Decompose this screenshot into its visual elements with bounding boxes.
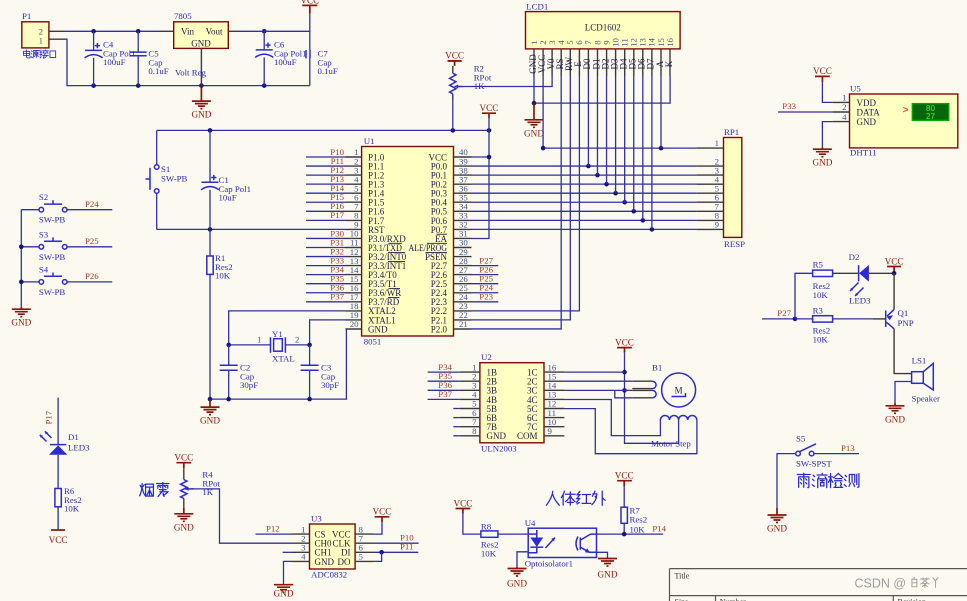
svg-text:U2: U2 <box>481 352 492 362</box>
wire Vout to VCC <box>228 30 239 32</box>
svg-text:U4: U4 <box>525 518 536 528</box>
svg-text:COM: COM <box>517 431 538 441</box>
wire VCC to R8 <box>463 514 481 535</box>
power VCC (U3) <box>375 517 390 522</box>
svg-text:1: 1 <box>257 334 261 344</box>
ground (keys) <box>11 307 31 328</box>
svg-text:Y1: Y1 <box>272 329 283 339</box>
LED D2 LED3 <box>849 252 871 306</box>
wire DO to DI <box>373 552 382 561</box>
driver U2 ULN2003 <box>460 352 565 453</box>
svg-text:DATA: DATA <box>857 107 881 117</box>
svg-text:GND: GND <box>507 579 527 589</box>
svg-text:0.1uF: 0.1uF <box>318 66 338 76</box>
crystal Y1 XTAL <box>229 329 310 364</box>
svg-text:GND: GND <box>191 110 211 120</box>
svg-text:1: 1 <box>39 36 43 46</box>
capacitor C1 10uF <box>201 130 251 229</box>
svg-text:5: 5 <box>359 552 364 562</box>
svg-text:LCD1: LCD1 <box>526 1 548 11</box>
wire P1.2 to 7805 Vin <box>66 30 160 32</box>
power VCC (U1) <box>482 113 496 118</box>
svg-text:10K: 10K <box>630 525 646 535</box>
svg-text:GND: GND <box>315 557 335 567</box>
wire R6 to VCC <box>57 507 59 530</box>
wire LCD VCC rail <box>542 76 544 148</box>
svg-text:100uF: 100uF <box>274 57 297 67</box>
wire net P27 <box>472 265 499 267</box>
svg-text:P12: P12 <box>266 523 280 533</box>
svg-text:8: 8 <box>472 426 477 436</box>
svg-text:S2: S2 <box>39 192 48 202</box>
wire net P23 <box>472 301 499 303</box>
svg-text:P11: P11 <box>400 542 413 552</box>
svg-text:LCD1602: LCD1602 <box>585 23 621 33</box>
wire R4 wiper to CH0 <box>192 489 292 543</box>
svg-text:RP1: RP1 <box>724 127 739 137</box>
ground (S5) <box>767 508 787 534</box>
ground (LCD) <box>525 120 544 128</box>
wire net P24 <box>472 292 499 294</box>
svg-text:P13: P13 <box>841 443 855 453</box>
svg-text:GND: GND <box>368 324 388 334</box>
svg-text:XTAL: XTAL <box>272 354 295 364</box>
wire P0.0 to RP1 <box>472 165 697 167</box>
power VCC (R8) <box>456 509 471 514</box>
svg-text:Number: Number <box>720 598 747 601</box>
junction <box>136 29 141 34</box>
svg-text:CSDN @: CSDN @ <box>855 576 907 590</box>
wire VCC to pin40 and EA <box>472 118 490 238</box>
svg-text:GND: GND <box>200 416 220 426</box>
wire net P36 <box>306 292 346 294</box>
wire net P32 <box>306 256 346 258</box>
wire net P11 <box>306 165 346 167</box>
speaker LS1 <box>912 356 940 404</box>
resistor R3 10K <box>813 305 833 344</box>
svg-text:Revision: Revision <box>898 598 926 601</box>
wire crystal gnd rail <box>210 329 346 399</box>
wire P0.4 to RP1 <box>472 201 697 203</box>
wire LCD GND+K <box>533 76 535 103</box>
power VCC (R4) <box>176 463 191 469</box>
svg-text:4: 4 <box>842 112 847 122</box>
power VCC (top) <box>302 5 317 13</box>
wire P2.1 to LCD RW <box>472 76 571 320</box>
svg-text:S4: S4 <box>39 264 49 274</box>
switch S3 SW-PB <box>39 229 67 261</box>
label 电源接口 <box>23 50 55 58</box>
svg-text:10K: 10K <box>813 290 829 300</box>
wire net P33 <box>306 265 346 267</box>
svg-text:P17: P17 <box>330 210 344 220</box>
svg-text:VCC: VCC <box>615 337 634 347</box>
wire net P27 <box>762 318 795 320</box>
svg-text:P33: P33 <box>782 101 796 111</box>
resistor R1 10K <box>207 229 233 399</box>
svg-text:SW-SPST: SW-SPST <box>796 459 832 469</box>
resistor R7 10K <box>621 486 647 535</box>
op-amp U1 8051 MCU <box>346 136 472 347</box>
wire P0.6 to RP1 <box>472 219 697 221</box>
wire LCD D6 <box>642 76 644 220</box>
wire D1 to R6 <box>57 455 59 489</box>
svg-text:VCC: VCC <box>885 256 904 266</box>
wire net P14 <box>597 533 664 535</box>
ground (7805) <box>191 86 211 120</box>
svg-text:K: K <box>664 60 674 67</box>
wire LCD D7 <box>651 76 653 229</box>
svg-text:21: 21 <box>459 319 468 329</box>
svg-text:PNP: PNP <box>898 318 914 328</box>
svg-text:9: 9 <box>715 220 720 230</box>
wire 1C <box>564 371 624 373</box>
resistor R6 10K <box>55 486 82 514</box>
power VCC (R7) <box>617 481 632 486</box>
svg-text:16: 16 <box>665 38 675 47</box>
resistor R5 10K <box>813 260 833 300</box>
svg-text:GND: GND <box>598 570 618 580</box>
wire VCC rail <box>157 129 489 131</box>
wire P0.1 to RP1 <box>472 174 697 176</box>
switch S4 SW-PB <box>39 264 67 297</box>
wire net P11 (DI/DO) <box>373 551 418 553</box>
wire net P30 <box>306 237 346 239</box>
svg-text:VCC: VCC <box>174 453 193 463</box>
wire R2 bottom to rail <box>452 100 454 130</box>
svg-text:B1: B1 <box>652 362 662 372</box>
wire net P37 <box>306 301 346 303</box>
wire U2 input stub <box>453 435 459 437</box>
svg-text:GND: GND <box>174 522 194 532</box>
svg-text:P37: P37 <box>330 292 344 302</box>
wire P1.1 to GND rail <box>66 39 310 85</box>
svg-text:Vin: Vin <box>181 27 194 37</box>
svg-text:10uF: 10uF <box>219 193 237 203</box>
svg-text:8051: 8051 <box>364 337 382 347</box>
power VCC (motor) <box>617 348 632 353</box>
wire U2 input stub <box>453 426 459 428</box>
wire net P34 (U2) <box>428 371 460 373</box>
svg-text:S5: S5 <box>796 434 806 444</box>
capacitor C7 0.1uF <box>306 31 338 85</box>
wire P0.2 to RP1 <box>472 183 697 185</box>
svg-text:P1: P1 <box>22 11 31 21</box>
potentiometer R4 RPot 1K <box>181 468 221 508</box>
wire R3 to Q1 base <box>833 318 873 320</box>
svg-text:SW-PB: SW-PB <box>161 174 188 184</box>
svg-text:1: 1 <box>715 138 719 148</box>
svg-text:SW-PB: SW-PB <box>39 287 66 297</box>
wire winding jog <box>615 390 633 397</box>
connector P1 <box>22 11 66 48</box>
wire P0.3 to RP1 <box>472 192 697 194</box>
svg-text:P25: P25 <box>85 236 99 246</box>
svg-text:10K: 10K <box>813 334 829 344</box>
ground (U4 left) <box>507 567 527 589</box>
svg-text:SW-PB: SW-PB <box>39 215 66 225</box>
svg-text:GND: GND <box>274 589 294 599</box>
svg-text:GND: GND <box>524 129 544 139</box>
svg-text:ULN2003: ULN2003 <box>481 444 517 454</box>
svg-text:GND: GND <box>857 117 877 127</box>
svg-text:1: 1 <box>842 93 846 103</box>
ground (speaker) <box>885 403 905 425</box>
ground (U4 right) <box>598 558 618 580</box>
svg-text:LED3: LED3 <box>68 443 90 453</box>
switch S1 SW-PB <box>146 130 188 229</box>
wire LCD D3 <box>615 76 617 193</box>
svg-text:SW-PB: SW-PB <box>39 252 66 262</box>
wire R5 to D2 <box>833 272 859 274</box>
wire net P12 <box>306 174 346 176</box>
wire net P33 (DATA) <box>778 111 832 113</box>
wire net P10 (CLK) <box>373 542 419 544</box>
wire net P16 <box>306 210 346 212</box>
wire 3C to winding <box>564 389 632 391</box>
junction <box>91 29 96 34</box>
wire net P37 (U2) <box>428 398 460 400</box>
svg-text:7805: 7805 <box>174 11 192 21</box>
wire P0.5 to RP1 <box>472 210 697 212</box>
wire net P31 <box>306 247 346 249</box>
capacitor C3 30pF <box>301 345 340 399</box>
display readout (DHT11) <box>912 104 949 121</box>
svg-text:Size: Size <box>675 598 689 601</box>
wire VCC to motor center tap <box>625 353 679 444</box>
svg-text:VCC: VCC <box>49 535 68 545</box>
ground (U3) <box>274 584 294 598</box>
wire LCD D1 <box>596 76 598 175</box>
motor B1 Motor Step <box>651 362 697 448</box>
wire XTAL2 net <box>229 311 346 345</box>
svg-text:VCC: VCC <box>373 507 392 517</box>
svg-text:2: 2 <box>842 102 846 112</box>
ground (crystal) <box>200 399 220 426</box>
sensor U5 DHT11 <box>832 84 958 158</box>
wire net P13 <box>814 453 859 455</box>
display LCD1 LCD1602 <box>526 1 681 76</box>
ground (DHT11) <box>812 147 832 168</box>
capacitor C2 30pF <box>220 345 258 399</box>
wire LCD D4 <box>624 76 626 202</box>
wire net P10 <box>306 156 346 158</box>
svg-text:Speaker: Speaker <box>912 394 940 404</box>
wire P2.2 to LCD E <box>472 76 580 311</box>
wire U4 emitter-LED to gnd <box>517 552 528 567</box>
svg-text:VCC: VCC <box>453 498 472 508</box>
svg-text:VCC: VCC <box>813 66 832 76</box>
svg-text:U3: U3 <box>311 514 322 524</box>
capacitor C4 100uF <box>85 31 136 85</box>
svg-text:VCC: VCC <box>480 103 499 113</box>
svg-text:10K: 10K <box>215 271 231 281</box>
junction <box>199 83 204 88</box>
svg-text:0.1uF: 0.1uF <box>148 66 168 76</box>
svg-text:Motor Step: Motor Step <box>651 439 691 449</box>
power VCC (D2/Q1) <box>887 267 901 274</box>
wire U2 input stub <box>453 408 459 410</box>
wire LCD D5 <box>633 76 635 211</box>
svg-text:2: 2 <box>295 334 299 344</box>
title block <box>670 569 967 601</box>
svg-text:DO: DO <box>338 557 351 567</box>
svg-text:P24: P24 <box>85 199 99 209</box>
wire 2C to winding <box>564 380 632 382</box>
wire net P17 <box>306 219 346 221</box>
svg-text:P23: P23 <box>479 292 493 302</box>
label 人体红外 <box>546 491 605 505</box>
wire DHT11 GND <box>822 122 832 148</box>
svg-text:P17: P17 <box>44 410 54 424</box>
wire CH1 stub <box>283 551 292 553</box>
LED D1 LED3 <box>40 431 90 455</box>
wire U4 phototransistor emitter to gnd <box>597 552 608 557</box>
wire RST rail <box>157 228 346 230</box>
wire R2 wiper to LCD V0 <box>462 76 553 87</box>
wire S5 to gnd <box>777 454 796 508</box>
wire LCD D0 <box>587 76 589 166</box>
wire VDD <box>822 82 832 102</box>
label 烟雾 <box>140 482 169 496</box>
wire net P36 (U2) <box>428 389 460 391</box>
svg-text:4: 4 <box>301 552 306 562</box>
svg-text:DHT11: DHT11 <box>850 148 877 158</box>
resistor R8 10K <box>481 522 499 559</box>
svg-text:VCC: VCC <box>615 471 634 481</box>
wire D2 to VCC node <box>869 272 894 274</box>
svg-text:R3: R3 <box>813 305 824 315</box>
svg-text:Vout: Vout <box>206 27 223 37</box>
power VCC (DHT11) <box>815 76 830 82</box>
svg-text:U1: U1 <box>364 136 375 146</box>
wire net P34 <box>306 274 346 276</box>
capacitor C6 100uF <box>255 31 306 85</box>
svg-text:D2: D2 <box>849 252 860 262</box>
svg-text:GND: GND <box>191 39 211 49</box>
optocoupler U4 Optoisolator1 <box>525 518 597 569</box>
power VCC (D1, inverted) <box>51 529 65 531</box>
wire VCC to Q1 emitter <box>893 273 895 309</box>
svg-text:27: 27 <box>926 112 935 121</box>
svg-text:>: > <box>903 105 909 116</box>
svg-text:M: M <box>675 386 683 396</box>
svg-text:9: 9 <box>548 426 553 436</box>
wire net P17 (LED) <box>57 398 59 445</box>
svg-text:GND: GND <box>11 318 31 328</box>
wire P0.7 to RP1 <box>472 228 697 230</box>
svg-text:GND: GND <box>487 431 507 441</box>
svg-text:GND: GND <box>767 524 787 534</box>
wire LCD D2 <box>606 76 608 184</box>
wire net P35 <box>306 283 346 285</box>
wire speaker to ground <box>895 382 912 403</box>
wire P27 to R5 <box>795 273 813 319</box>
svg-text:P14: P14 <box>652 524 666 534</box>
svg-text:RESP: RESP <box>724 239 745 249</box>
wire P26 <box>67 281 112 283</box>
wire net P27 to R3 <box>795 318 813 320</box>
wire net P12 <box>256 533 292 535</box>
wire S4 to gnd bus <box>21 281 39 283</box>
wire U3 GND <box>284 561 292 584</box>
svg-text:Title: Title <box>675 572 690 581</box>
svg-text:S3: S3 <box>39 229 49 239</box>
wire net P25 <box>472 283 499 285</box>
svg-text:R5: R5 <box>813 260 824 270</box>
wire P24 <box>67 209 112 211</box>
svg-text:P2.0: P2.0 <box>431 324 448 334</box>
potentiometer R2 RPot 1K <box>450 64 492 101</box>
svg-text:VDD: VDD <box>857 98 877 108</box>
label 雨滴检测 <box>797 473 859 487</box>
resistor-pack RP1 RESP <box>696 127 745 249</box>
svg-text:ADC0832: ADC0832 <box>311 570 347 580</box>
svg-text:Optoisolator1: Optoisolator1 <box>525 559 573 569</box>
wire XTAL1 net <box>310 320 346 345</box>
svg-text:GND: GND <box>812 158 832 168</box>
wire P25 <box>67 246 112 248</box>
capacitor C5 0.1uF <box>130 31 169 85</box>
svg-text:S1: S1 <box>161 164 170 174</box>
wire net P13 <box>306 183 346 185</box>
svg-text:Res2: Res2 <box>630 515 648 525</box>
adc U3 ADC0832 <box>292 514 374 580</box>
svg-text:R8: R8 <box>481 522 492 532</box>
wire net P15 <box>306 201 346 203</box>
wire net P35 (U2) <box>428 380 460 382</box>
wire P2.0 to LCD RS <box>472 76 562 329</box>
svg-text:VCC: VCC <box>445 51 464 61</box>
svg-text:P37: P37 <box>438 389 452 399</box>
regulator 7805 <box>174 11 229 86</box>
wire LCD A (backlight) <box>660 76 662 148</box>
svg-text:VCC: VCC <box>300 0 319 6</box>
wire 4C to coil left <box>564 400 660 436</box>
transistor Q1 PNP <box>886 308 914 329</box>
wire S3 to gnd bus <box>21 246 39 248</box>
ground (R4) <box>174 508 194 533</box>
power VCC (R2) <box>448 60 462 62</box>
svg-text:10K: 10K <box>64 504 80 514</box>
switch S2 SW-PB <box>39 192 67 225</box>
svg-text:GND: GND <box>885 414 905 424</box>
svg-text:LED3: LED3 <box>849 296 871 306</box>
wire net P26 <box>472 274 499 276</box>
wire switch gnd bus <box>20 210 22 307</box>
switch S5 SW-SPST <box>796 434 833 469</box>
svg-text:D1: D1 <box>68 432 79 442</box>
wire net P14 <box>306 192 346 194</box>
svg-text:Q1: Q1 <box>898 308 909 318</box>
svg-text:20: 20 <box>350 319 359 329</box>
svg-text:30pF: 30pF <box>240 380 258 390</box>
svg-text:P27: P27 <box>777 308 791 318</box>
wire Q1 collector to speaker <box>894 329 912 374</box>
svg-text:U5: U5 <box>850 84 861 94</box>
wire S2 to gnd bus <box>21 209 39 211</box>
svg-text:LS1: LS1 <box>912 356 927 366</box>
wire 5C to coil right <box>564 409 697 454</box>
svg-text:10K: 10K <box>481 548 497 558</box>
svg-text:P26: P26 <box>85 271 99 281</box>
wire R8 to U4 <box>498 533 528 535</box>
svg-text:30pF: 30pF <box>321 380 339 390</box>
svg-text:100uF: 100uF <box>103 57 126 67</box>
wire U2 input stub <box>453 417 459 419</box>
wire U3 VCC <box>373 522 382 534</box>
